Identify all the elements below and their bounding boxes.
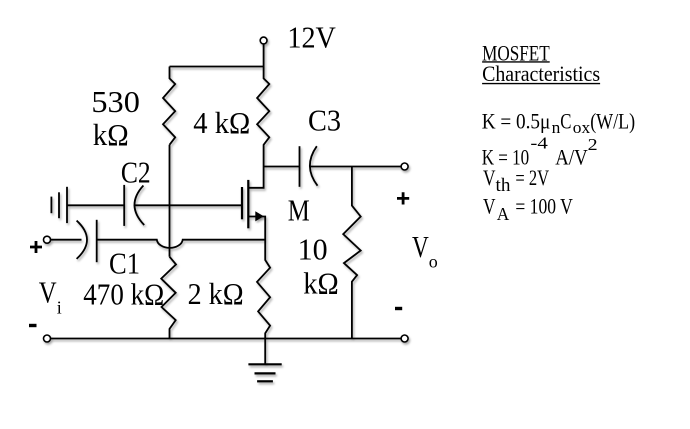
- svg-text:A: A: [497, 204, 510, 224]
- svg-text:C2: C2: [121, 154, 151, 189]
- ground: [264, 339, 266, 365]
- svg-text:V: V: [412, 229, 429, 264]
- svg-text:V: V: [39, 275, 57, 310]
- svg-text:th: th: [496, 175, 511, 196]
- svg-text:C3: C3: [308, 103, 341, 138]
- output terminal top: [401, 163, 408, 170]
- resistor R1 530k: [163, 67, 175, 145]
- wire gate line C2 to gate: [135, 204, 242, 206]
- svg-text:2: 2: [588, 135, 598, 154]
- svg-text:10: 10: [298, 231, 328, 266]
- resistor R4 10k: [343, 167, 361, 339]
- transistor M channel bar: [247, 180, 249, 228]
- svg-text:= 2V: = 2V: [515, 165, 549, 190]
- wire input to C1: [51, 239, 82, 241]
- svg-text:A/V: A/V: [555, 144, 587, 169]
- svg-text:530: 530: [91, 84, 139, 119]
- wire bottom rail: [51, 338, 402, 340]
- source arrow: [255, 211, 263, 221]
- svg-text:12V: 12V: [287, 20, 336, 55]
- input plus: [30, 241, 42, 253]
- svg-text:Characteristics: Characteristics: [482, 61, 600, 86]
- wire top rail: [170, 66, 264, 68]
- svg-text:M: M: [288, 193, 310, 228]
- capacitor C3: [299, 146, 301, 187]
- svg-text:i: i: [57, 297, 62, 317]
- output minus: [395, 307, 402, 310]
- capacitor C2: [123, 185, 125, 226]
- AC ground (sideways): [50, 197, 52, 214]
- svg-text:kΩ: kΩ: [303, 266, 339, 301]
- svg-text:= 100 V: = 100 V: [515, 194, 572, 219]
- input terminal bottom: [44, 335, 51, 342]
- 12V supply terminal: [260, 37, 267, 44]
- wire output drain to C3: [264, 166, 300, 168]
- svg-text:470 kΩ: 470 kΩ: [83, 277, 164, 312]
- capacitor C1: [96, 220, 98, 262]
- svg-text:K = 0.5μ: K = 0.5μ: [482, 108, 551, 133]
- svg-text:4 kΩ: 4 kΩ: [193, 105, 250, 140]
- svg-text:o: o: [429, 252, 438, 272]
- svg-text:-4: -4: [530, 134, 548, 153]
- resistor R3 470k: [161, 257, 176, 339]
- output terminal bottom: [401, 335, 408, 342]
- transistor M gate bar: [241, 187, 243, 219]
- svg-text:V: V: [483, 165, 496, 190]
- input terminal top: [44, 236, 51, 243]
- output plus: [397, 192, 409, 204]
- wire C3 to output terminal: [310, 166, 401, 168]
- svg-text:2 kΩ: 2 kΩ: [188, 276, 244, 311]
- wire gate column: [169, 145, 171, 257]
- svg-text:(W/L): (W/L): [590, 108, 635, 133]
- svg-text:kΩ: kΩ: [93, 117, 129, 152]
- wire source lead and resistor R5 2k: [248, 217, 270, 339]
- svg-text:V: V: [483, 194, 496, 219]
- wire 12V supply drop and resistor R2 4k zigzag: [248, 44, 269, 188]
- wire gate line left of C2: [67, 204, 124, 206]
- svg-text:C: C: [560, 108, 571, 133]
- wire C1 to source with hop over 470k: [97, 240, 266, 248]
- input minus: [29, 324, 37, 327]
- svg-text:C1: C1: [109, 246, 140, 281]
